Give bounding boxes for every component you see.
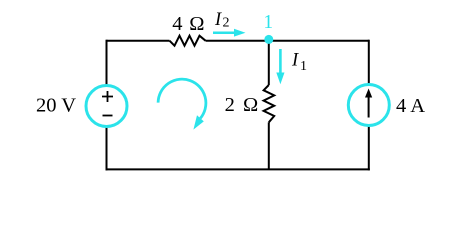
wire right lower	[368, 126, 370, 171]
wire left branch	[106, 40, 108, 86]
current arrow I2	[213, 31, 235, 34]
wire right upper	[368, 40, 370, 85]
current source I 4A circle	[348, 85, 389, 126]
resistor R 2ohm zigzag	[264, 85, 275, 122]
voltage source plus sign	[102, 91, 113, 102]
current arrow I1	[279, 49, 282, 74]
wire top-right segment	[206, 40, 369, 42]
wire middle upper	[268, 41, 270, 85]
svg-text:20 V: 20 V	[36, 95, 76, 117]
svg-text:4 Ω: 4 Ω	[172, 13, 205, 35]
svg-text:1: 1	[300, 59, 307, 74]
svg-text:2 Ω: 2 Ω	[225, 94, 260, 116]
resistor R 4ohm zigzag	[170, 36, 206, 46]
svg-text:2: 2	[223, 16, 230, 31]
svg-text:1: 1	[263, 12, 273, 33]
wire top-left segment	[107, 40, 170, 42]
wire left lower	[106, 127, 108, 171]
mesh current arrowhead	[193, 115, 203, 129]
node 1 dot	[264, 35, 273, 44]
svg-text:4 A: 4 A	[396, 95, 425, 117]
wire middle lower	[268, 122, 270, 170]
current source arrow	[368, 97, 370, 118]
voltage source minus sign	[103, 115, 113, 117]
wire bottom	[106, 168, 370, 170]
svg-text:I: I	[291, 51, 299, 71]
svg-text:I: I	[214, 10, 222, 30]
mesh current arrow arc	[158, 79, 206, 118]
voltage source V1 circle	[86, 86, 127, 127]
